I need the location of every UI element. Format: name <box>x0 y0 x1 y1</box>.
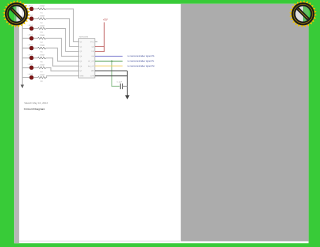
wire: LED6 to R6 <box>34 57 38 59</box>
LED5 <box>28 45 34 51</box>
wire: rail to LED2 <box>22 18 29 20</box>
LED6 <box>28 54 34 60</box>
wire: LED8 to R8 <box>34 77 38 79</box>
wire: red stub pin16 <box>95 46 104 48</box>
LED8 <box>28 74 34 80</box>
svg-text:SH_CP: SH_CP <box>88 66 95 68</box>
wire: red stub pin15 <box>95 51 105 53</box>
wire: black ground vertical <box>126 71 128 96</box>
prohibition icon top-right <box>289 0 317 28</box>
svg-text:LED8: LED8 <box>28 74 34 76</box>
LED7 <box>28 64 34 70</box>
svg-text:220Ω: 220Ω <box>40 25 45 27</box>
wire: rail to LED8 <box>22 77 29 79</box>
LED3 <box>28 25 34 31</box>
svg-text:220Ω: 220Ω <box>40 55 45 57</box>
wire: +5V red vertical <box>103 22 105 51</box>
ground arrow of LED rail <box>21 85 24 89</box>
capacitor C1 0.1uF <box>117 82 123 89</box>
svg-text:LED4: LED4 <box>28 35 34 37</box>
LED1 <box>28 5 34 11</box>
wire: LED5 to R5 <box>34 47 38 49</box>
resistor R4 220 ohm <box>38 35 46 44</box>
svg-text:74HC595: 74HC595 <box>79 37 89 39</box>
ground symbol bottom <box>125 95 129 99</box>
wire: LED common rail <box>21 9 23 85</box>
wire: LED1 to R1 <box>34 8 38 10</box>
page left gray edge strip <box>14 4 19 243</box>
gray overlay panel <box>181 4 309 242</box>
wire: rail to LED6 <box>22 57 29 59</box>
svg-text:220Ω: 220Ω <box>40 74 45 76</box>
svg-text:LED5: LED5 <box>28 45 34 47</box>
svg-text:Circuit Diagram: Circuit Diagram <box>24 107 46 111</box>
wire: rail to LED7 <box>22 67 29 69</box>
wire: blue data wire <box>95 55 123 57</box>
wire: rail to LED5 <box>22 47 29 49</box>
resistor R3 220 ohm <box>38 25 46 34</box>
svg-text:LED6: LED6 <box>28 54 34 56</box>
page bottom faint shadow line <box>19 240 180 242</box>
wire: yellow latch wire <box>95 65 123 67</box>
svg-text:Q5: Q5 <box>80 61 82 63</box>
svg-text:Q7: Q7 <box>80 71 82 73</box>
svg-text:220Ω: 220Ω <box>40 35 45 37</box>
svg-text:GND: GND <box>80 76 85 78</box>
prohibition icon top-left <box>3 0 31 28</box>
op-amp / IC U1 74HC595 <box>79 37 95 78</box>
svg-text:0.1µF: 0.1µF <box>117 82 123 84</box>
resistor R1 220 ohm <box>38 6 46 15</box>
resistor R7 220 ohm <box>38 65 46 74</box>
wire: rail to LED4 <box>22 37 29 39</box>
svg-text:LED7: LED7 <box>28 64 34 66</box>
wire: black ground wire pin13 <box>95 70 127 72</box>
svg-text:ST_CP: ST_CP <box>88 61 95 63</box>
svg-text:220Ω: 220Ω <box>40 65 45 67</box>
wire: R8 to U1 pin 8 <box>46 76 79 78</box>
svg-text:LED1: LED1 <box>28 5 34 7</box>
wire: rail to LED3 <box>22 28 29 30</box>
svg-text:Q0: Q0 <box>91 46 93 48</box>
svg-text:Sketch May 10, 2013: Sketch May 10, 2013 <box>24 102 48 105</box>
wire: green vertical to capacitor <box>112 61 120 86</box>
wire: R6 to U1 pin 6 <box>46 58 79 66</box>
wire: LED7 to R7 <box>34 67 38 69</box>
resistor R2 220 ohm <box>38 16 46 25</box>
wire: R3 to U1 pin 3 <box>46 29 79 52</box>
svg-text:Q6: Q6 <box>80 66 82 68</box>
resistor R8 220 ohm <box>38 74 46 83</box>
svg-text:Q1: Q1 <box>80 42 82 44</box>
wire: R5 to U1 pin 5 <box>46 48 79 61</box>
svg-text:220Ω: 220Ω <box>40 16 45 18</box>
resistor R6 220 ohm <box>38 55 46 64</box>
svg-text:LED3: LED3 <box>28 25 34 27</box>
svg-text:220Ω: 220Ω <box>40 6 45 8</box>
U1 pin stub top right <box>95 41 98 43</box>
LED2 <box>28 15 34 21</box>
junction: green wire tee <box>111 60 113 62</box>
wire: capacitor to ground <box>123 85 128 87</box>
wire: LED4 to R4 <box>34 37 38 39</box>
LED4 <box>28 35 34 41</box>
wire: R4 to U1 pin 4 <box>46 38 79 56</box>
wire: LED2 to R2 <box>34 18 38 20</box>
svg-text:Q4: Q4 <box>80 56 82 58</box>
wire: R2 to U1 pin 2 <box>46 19 79 47</box>
wire: rail to LED1 <box>22 8 29 10</box>
wire: black ground wire pin8 <box>95 75 127 77</box>
wire: green clock wire <box>95 60 123 62</box>
wire: LED3 to R3 <box>34 28 38 30</box>
wire: R1 to U1 pin 1 <box>46 9 79 42</box>
svg-text:Q2: Q2 <box>80 46 82 48</box>
svg-text:220Ω: 220Ω <box>40 45 45 47</box>
svg-text:Q3: Q3 <box>80 51 82 53</box>
wire: R7 to U1 pin 7 <box>46 68 79 71</box>
resistor R5 220 ohm <box>38 45 46 54</box>
